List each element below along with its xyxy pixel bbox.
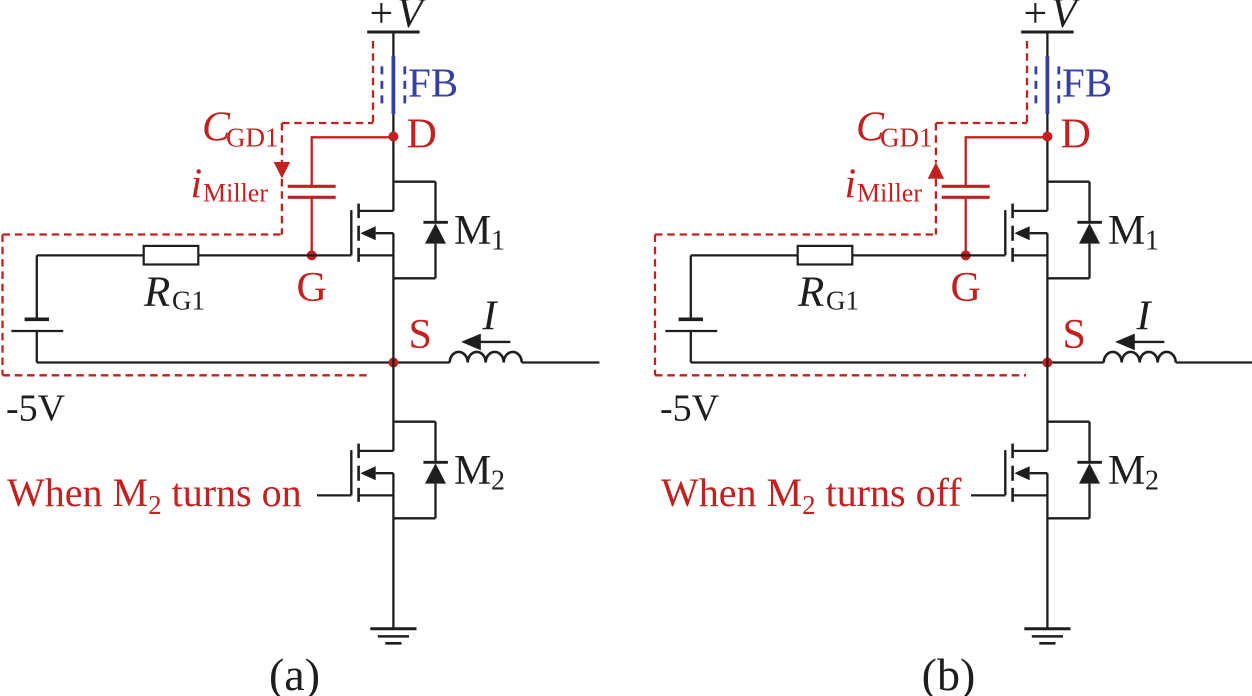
svg-text:M: M xyxy=(454,208,491,254)
transistor M2b channel segment 3 xyxy=(1011,488,1014,502)
ground symbol line 1 xyxy=(1024,627,1070,630)
Miller loop dashed: mid horizontal xyxy=(3,233,282,235)
node D junction dot xyxy=(388,132,398,142)
transistor M1 channel segment 3 xyxy=(357,248,360,262)
ferrite bead FB left dashed xyxy=(380,66,383,104)
capacitor C_GD1 bottom plate xyxy=(288,196,336,199)
Miller loop dashed: top vertical beside FB xyxy=(372,41,374,123)
capacitor C_GD1 top plate xyxy=(942,185,990,188)
ferrite bead FB core wire xyxy=(391,56,395,114)
ground symbol line 3 xyxy=(1039,642,1055,645)
wire M1 diode top branch xyxy=(393,181,435,183)
svg-text:M: M xyxy=(454,448,491,494)
battery -5V positive plate (long) xyxy=(665,330,717,332)
wire C_GD1 top lead (red) xyxy=(966,137,1048,186)
ground symbol line 2 xyxy=(378,635,409,638)
svg-text:2: 2 xyxy=(491,466,505,497)
diode M1b body-diode cathode bar xyxy=(1077,221,1102,224)
Miller loop dashed: bottom horizontal xyxy=(3,374,371,376)
diode M1 body-diode triangle xyxy=(425,223,446,243)
svg-text:GD1: GD1 xyxy=(226,123,279,153)
transistor M1 body arrow xyxy=(360,226,375,240)
transistor M2b body arrow stub xyxy=(1030,472,1048,474)
ground symbol line 3 xyxy=(385,642,401,645)
svg-text:I: I xyxy=(482,294,499,340)
svg-text:G: G xyxy=(297,265,327,311)
wire C_GD1 top lead (red) xyxy=(312,137,394,186)
resistor R_G1 body xyxy=(798,246,853,265)
transistor M2 body arrow xyxy=(360,466,375,480)
transistor M1 drain stub xyxy=(359,210,394,212)
wire R_G1 to gate (through node G) xyxy=(852,254,1005,256)
Miller loop dashed: left vertical xyxy=(1,235,3,376)
transistor M1b gate bar xyxy=(1004,210,1006,255)
load current arrowhead xyxy=(1115,334,1135,351)
transistor M1b drain stub xyxy=(1013,210,1048,212)
wire M2 gate lead xyxy=(317,494,351,496)
node D junction dot xyxy=(1042,132,1052,142)
Miller loop dashed: segment below arrow xyxy=(281,179,283,235)
transistor M1b channel segment 3 xyxy=(1011,248,1014,262)
wire M2 diode bottom branch xyxy=(393,517,435,519)
svg-text:G1: G1 xyxy=(172,286,205,316)
svg-text:1: 1 xyxy=(491,226,505,257)
diode M2 body-diode cathode bar xyxy=(423,461,448,464)
svg-text:i: i xyxy=(845,161,857,207)
node S junction dot xyxy=(1042,358,1052,368)
inductor load coil xyxy=(1104,352,1176,363)
wire driver to R_G1 xyxy=(691,254,798,256)
wire M2 gate lead xyxy=(971,494,1005,496)
transistor M2b body arrow xyxy=(1014,466,1029,480)
wire source rail right of inductor xyxy=(522,361,600,363)
wire M1 diode bottom branch xyxy=(393,277,435,279)
load current arrow line xyxy=(1134,341,1164,343)
Miller loop dashed: segment below arrow xyxy=(935,179,937,235)
capacitor C_GD1 bottom plate xyxy=(942,196,990,199)
wire M2 source to ground xyxy=(1046,473,1048,629)
wire M2 diode anode lead xyxy=(434,484,436,519)
svg-text:G: G xyxy=(951,265,981,311)
transistor M1 body arrow stub xyxy=(376,232,394,234)
svg-text:Miller: Miller xyxy=(203,179,268,208)
transistor M1 channel segment 2 xyxy=(357,226,360,241)
wire source rail left of S xyxy=(691,361,1104,363)
Miller loop dashed: top horizontal xyxy=(282,122,373,124)
svg-text:R: R xyxy=(143,269,170,316)
transistor M1 source stub xyxy=(359,254,394,256)
inductor load coil xyxy=(450,352,522,363)
svg-text:D: D xyxy=(407,112,437,158)
transistor M1 gate bar xyxy=(350,210,352,255)
transistor M2 gate bar xyxy=(350,450,352,495)
diode M1b body-diode triangle xyxy=(1079,223,1100,243)
ferrite bead FB core wire xyxy=(1046,56,1050,114)
wire driver to R_G1 xyxy=(37,254,144,256)
svg-text:-5V: -5V xyxy=(660,388,720,430)
wire M1 source to M2 drain (through node S) xyxy=(392,233,394,451)
transistor M2b channel segment 2 xyxy=(1011,466,1014,481)
Miller current arrow (down) xyxy=(274,162,290,179)
svg-text:When M2 turns on: When M2 turns on xyxy=(7,470,302,520)
transistor M2 channel segment 2 xyxy=(357,466,360,481)
power rail +V bar xyxy=(1021,31,1073,34)
ground symbol line 2 xyxy=(1032,635,1063,638)
svg-text:-5V: -5V xyxy=(6,388,66,430)
transistor M2 channel segment 1 xyxy=(357,444,360,459)
transistor M2b source stub xyxy=(1013,494,1048,496)
wire M2b diode top branch xyxy=(1047,421,1089,423)
transistor M1b channel segment 2 xyxy=(1011,226,1014,241)
capacitor C_GD1 top plate xyxy=(288,185,336,188)
svg-text:GD1: GD1 xyxy=(880,123,933,153)
wire R_G1 to gate (through node G) xyxy=(198,254,351,256)
transistor M2 channel segment 3 xyxy=(357,488,360,502)
Miller loop dashed: top horizontal xyxy=(936,122,1027,124)
svg-text:FB: FB xyxy=(1062,60,1112,106)
ferrite bead FB right dashed xyxy=(1057,66,1060,104)
wire M1 diode anode lead xyxy=(434,244,436,279)
wire M2 diode cathode lead xyxy=(434,422,436,463)
transistor M1b body arrow stub xyxy=(1030,232,1048,234)
svg-text:Miller: Miller xyxy=(857,179,922,208)
svg-text:I: I xyxy=(1136,294,1153,340)
transistor M2b drain stub xyxy=(1013,450,1048,452)
transistor M2b gate bar xyxy=(1004,450,1006,495)
Miller loop dashed: left vertical xyxy=(654,235,656,376)
wire M1 source to M2 drain (through node S) xyxy=(1046,233,1048,451)
Miller loop dashed: segment above arrow xyxy=(935,123,937,163)
svg-text:1: 1 xyxy=(1145,226,1159,257)
svg-text:G1: G1 xyxy=(826,286,859,316)
transistor M2b channel segment 1 xyxy=(1011,444,1014,459)
Miller loop dashed: bottom horizontal xyxy=(655,374,1026,376)
battery -5V positive plate (long) xyxy=(11,330,63,332)
wire +V bar to ferrite bead xyxy=(1046,32,1048,58)
load current arrow line xyxy=(480,341,510,343)
wire M1b diode top branch xyxy=(1047,181,1089,183)
wire M2 source to ground xyxy=(392,473,394,629)
wire M2b diode anode lead xyxy=(1088,484,1090,519)
Miller loop dashed: top vertical beside FB xyxy=(1026,41,1028,123)
node G junction dot xyxy=(961,250,971,260)
Miller loop dashed: segment above arrow xyxy=(281,123,283,163)
battery -5V negative plate (short) xyxy=(25,317,49,321)
wire gate drive down to battery xyxy=(690,255,692,319)
svg-text:S: S xyxy=(1063,312,1086,358)
svg-text:M: M xyxy=(1108,448,1145,494)
wire C_GD1 bottom lead (red) xyxy=(965,197,967,255)
transistor M2 drain stub xyxy=(359,450,394,452)
wire FB to M1 drain xyxy=(392,114,394,211)
wire M1b diode anode lead xyxy=(1088,244,1090,279)
svg-text:FB: FB xyxy=(408,60,458,106)
wire +V bar to ferrite bead xyxy=(392,32,394,58)
wire gate drive down to battery xyxy=(36,255,38,319)
node G junction dot xyxy=(307,250,317,260)
wire M1 diode cathode lead xyxy=(434,182,436,223)
wire FB to M1 drain xyxy=(1046,114,1048,211)
diode M2b body-diode triangle xyxy=(1079,463,1100,483)
Miller current arrow (up) xyxy=(928,162,944,179)
wire M2 diode top branch xyxy=(393,421,435,423)
transistor M2 source stub xyxy=(359,494,394,496)
Miller loop dashed: mid horizontal xyxy=(655,233,936,235)
svg-text:When M2 turns off: When M2 turns off xyxy=(661,470,962,520)
ferrite bead FB left dashed xyxy=(1035,66,1038,104)
transistor M2 body arrow stub xyxy=(376,472,394,474)
power rail +V bar xyxy=(367,31,419,34)
battery -5V negative plate (short) xyxy=(679,317,703,321)
wire battery to source rail xyxy=(690,331,692,363)
wire source rail left of S xyxy=(37,361,450,363)
node S junction dot xyxy=(388,358,398,368)
diode M2 body-diode triangle xyxy=(425,463,446,483)
svg-text:R: R xyxy=(797,269,824,316)
transistor M1b channel segment 1 xyxy=(1011,204,1014,219)
wire M1b diode bottom branch xyxy=(1047,277,1089,279)
wire M1b diode cathode lead xyxy=(1088,182,1090,223)
svg-text:(b): (b) xyxy=(922,649,976,696)
load current arrowhead xyxy=(461,334,481,351)
wire M2b diode bottom branch xyxy=(1047,517,1089,519)
svg-text:S: S xyxy=(409,312,432,358)
wire M2b diode cathode lead xyxy=(1088,422,1090,463)
svg-text:i: i xyxy=(191,161,203,207)
svg-text:2: 2 xyxy=(1145,466,1159,497)
diode M2b body-diode cathode bar xyxy=(1077,461,1102,464)
wire source rail right of inductor xyxy=(1176,361,1252,363)
transistor M1b body arrow xyxy=(1014,226,1029,240)
wire C_GD1 bottom lead (red) xyxy=(311,197,313,255)
ground symbol line 1 xyxy=(370,627,416,630)
svg-text:(a): (a) xyxy=(269,649,320,696)
svg-text:D: D xyxy=(1061,112,1091,158)
diode M1 body-diode cathode bar xyxy=(423,221,448,224)
transistor M1b source stub xyxy=(1013,254,1048,256)
transistor M1 channel segment 1 xyxy=(357,204,360,219)
resistor R_G1 body xyxy=(144,246,199,265)
ferrite bead FB right dashed xyxy=(403,66,406,104)
svg-text:M: M xyxy=(1108,208,1145,254)
wire battery to source rail xyxy=(36,331,38,363)
